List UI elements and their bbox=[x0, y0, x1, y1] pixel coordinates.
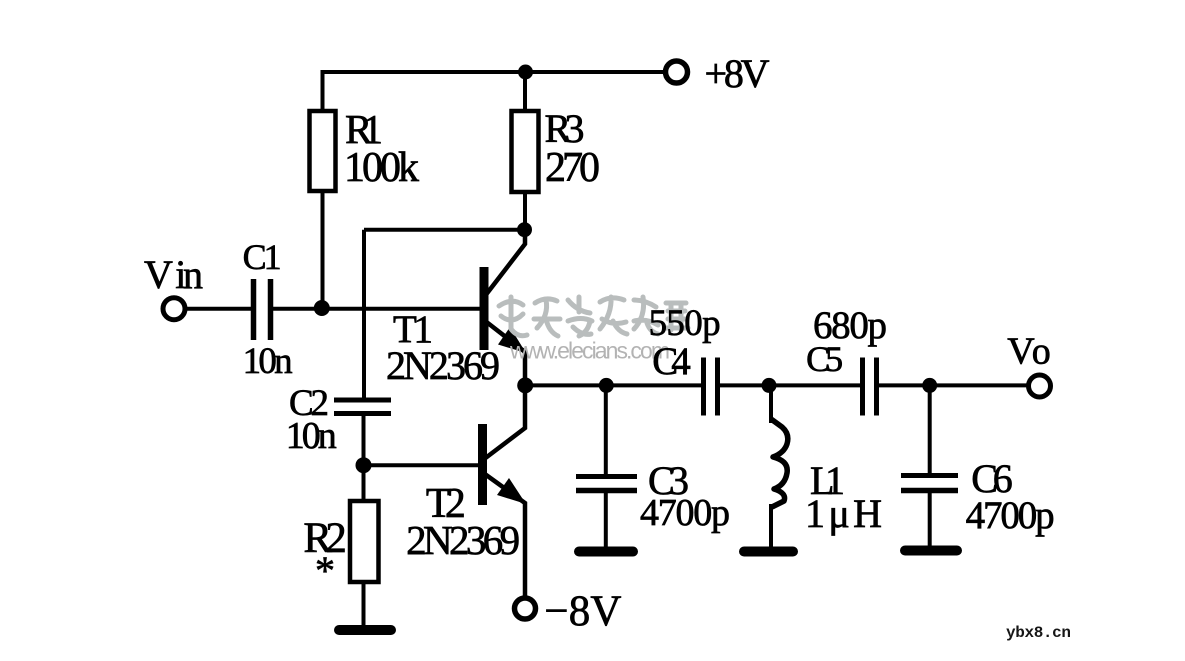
wire L1 bottom lead bbox=[769, 504, 773, 548]
ground under L1 bbox=[744, 547, 793, 557]
junction dot top rail bbox=[518, 65, 533, 80]
wire R3 bottom lead bbox=[523, 191, 527, 230]
svg-text:Vo: Vo bbox=[1007, 331, 1050, 373]
terminal V in bbox=[163, 298, 185, 320]
capacitor C4 bbox=[704, 358, 718, 416]
resistor R1 bbox=[310, 111, 336, 191]
ground under C6 bbox=[905, 546, 957, 556]
svg-text:V in: V in bbox=[144, 252, 203, 297]
capacitor C2 bbox=[334, 400, 391, 414]
wire input to C1 bbox=[185, 307, 251, 311]
wire output rail segment 1 bbox=[525, 383, 701, 387]
resistor R2 bbox=[350, 501, 379, 582]
terminal +8V bbox=[666, 61, 688, 83]
wire C3 bottom lead bbox=[604, 492, 608, 548]
junction dot C6 branch bbox=[922, 378, 937, 393]
svg-text:550p: 550p bbox=[649, 303, 721, 344]
capacitor C6 bbox=[901, 476, 958, 491]
svg-text:270: 270 bbox=[545, 145, 600, 191]
wire C1 to T1 base bbox=[273, 307, 480, 311]
svg-text:4700p: 4700p bbox=[640, 492, 730, 534]
svg-text:10n: 10n bbox=[243, 341, 293, 382]
wire top supply rail bbox=[322, 70, 663, 74]
inductor L1 bbox=[771, 419, 788, 507]
wire R2 bottom lead bbox=[362, 582, 366, 628]
junction dot C3 branch bbox=[599, 378, 614, 393]
wire R1 bottom lead bbox=[321, 190, 325, 310]
wire output rail segment 3 bbox=[879, 383, 1028, 387]
wire C6 bottom lead bbox=[928, 492, 932, 546]
wire C3 top lead bbox=[604, 385, 608, 474]
capacitor C5 bbox=[863, 358, 877, 416]
svg-text:100k: 100k bbox=[344, 145, 419, 191]
junction dot L1 branch bbox=[762, 378, 777, 393]
svg-text:ybx8.cn: ybx8.cn bbox=[1006, 624, 1071, 642]
junction dot input node bbox=[314, 300, 330, 316]
wire R2 top lead bbox=[362, 465, 366, 501]
wire C2 bottom lead bbox=[362, 414, 366, 466]
svg-text:*: * bbox=[315, 548, 335, 593]
svg-text:−8V: −8V bbox=[544, 588, 621, 635]
svg-text:4700p: 4700p bbox=[966, 494, 1055, 537]
svg-text:2N2369: 2N2369 bbox=[386, 343, 500, 388]
svg-text:www.elecians.com: www.elecians.com bbox=[509, 338, 670, 364]
junction dot T1 emitter / T2 collector / output bbox=[517, 377, 533, 393]
wire feedback horizontal (collector node to C2 branch) bbox=[364, 228, 524, 232]
wire L1 top lead bbox=[769, 385, 773, 423]
wire R3 top lead bbox=[523, 70, 527, 111]
wire C6 top lead bbox=[928, 385, 932, 473]
resistor R3 bbox=[512, 111, 539, 192]
junction dot C2 / T2 base / R2 bbox=[356, 457, 372, 473]
capacitor C3 bbox=[576, 477, 637, 491]
terminal -8V bbox=[515, 598, 536, 619]
wire output rail segment 2 bbox=[720, 383, 860, 387]
svg-text:C4: C4 bbox=[652, 340, 691, 383]
svg-text:1 μ H: 1 μ H bbox=[805, 491, 882, 536]
wire C2 branch vertical bbox=[362, 230, 366, 400]
transistor T2 bbox=[483, 386, 527, 598]
capacitor C1 bbox=[254, 279, 271, 340]
svg-text:10n: 10n bbox=[286, 415, 337, 457]
transistor T1 bbox=[484, 229, 526, 386]
wire R1 top lead bbox=[321, 70, 325, 111]
ground under C3 bbox=[579, 547, 633, 557]
terminal Vo bbox=[1029, 375, 1051, 397]
svg-text:C1: C1 bbox=[243, 237, 282, 277]
wire T2 base bbox=[364, 463, 479, 467]
junction dot R3 bottom / T1 collector bbox=[517, 222, 532, 237]
ground under R2 bbox=[339, 625, 391, 635]
svg-text:C5: C5 bbox=[806, 339, 843, 379]
svg-text:2N2369: 2N2369 bbox=[406, 517, 520, 563]
svg-text:+8V: +8V bbox=[705, 51, 770, 96]
watermark chinese characters bbox=[499, 297, 688, 336]
